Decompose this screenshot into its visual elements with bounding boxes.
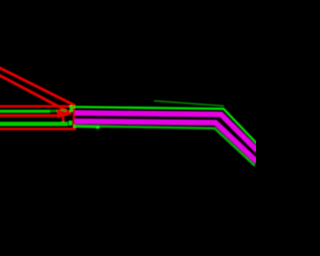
green tick upper junction (70, 106, 73, 112)
wire bottom green right section (74, 126, 255, 166)
wire green upper-left bright part (0, 110, 50, 113)
green bright dot (96, 126, 100, 129)
red vertical bar inner (62, 112, 65, 125)
arrowhead red (57, 109, 73, 118)
wire top green right section (74, 107, 258, 144)
wire green upper-left dim part (50, 109, 66, 112)
wire upper magenta (75, 113, 257, 151)
wire red diagonal upper (0, 67, 75, 106)
wire red top horizontal (0, 105, 73, 108)
wire bottom green bright segment (74, 125, 97, 128)
wire red diagonal lower (0, 75, 71, 114)
red vertical bar outer (73, 107, 75, 129)
green tick lower junction (69, 121, 72, 126)
wire red middle horizontal (0, 114, 62, 117)
wire green lower-left (0, 122, 68, 126)
wire red bottom horizontal (0, 128, 76, 131)
wire lower magenta (75, 121, 257, 162)
wire faint green above band (154, 101, 224, 106)
